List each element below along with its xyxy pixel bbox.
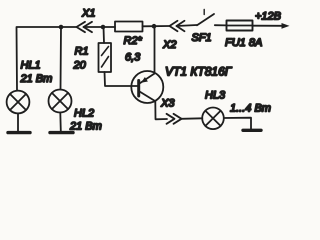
+12V supply arrow [282, 23, 290, 29]
connector X2 [170, 21, 185, 31]
svg-text:1...4 Вт: 1...4 Вт [230, 103, 271, 115]
wire top-left rail and HL1 drop [17, 27, 77, 91]
svg-text:HL1: HL1 [21, 60, 41, 72]
wire VT1 emitter drop [154, 26, 156, 73]
svg-text:+12В: +12В [255, 11, 281, 23]
svg-text:SF1: SF1 [192, 32, 212, 44]
junction node (HL2 tap) [59, 25, 64, 30]
svg-text:X1: X1 [81, 8, 95, 20]
wire FU1 to supply arrow [253, 25, 283, 27]
svg-text:R2*: R2* [124, 35, 143, 47]
lamp HL3 [202, 108, 224, 130]
lamp HL1 [7, 91, 30, 114]
transistor VT1 [131, 71, 163, 103]
wire HL3 to ground [224, 118, 251, 129]
connector X1 [77, 22, 93, 32]
junction node (VT1 emitter tap) [152, 24, 157, 29]
wire R2 to X2 [143, 25, 170, 27]
wire HL2 to ground [59, 113, 62, 132]
wire HL1 to ground [17, 113, 19, 131]
ground (chassis) HL3 [243, 129, 261, 132]
wire X2 to SF1 [177, 25, 198, 26]
svg-text:FU1 8А: FU1 8А [225, 37, 262, 49]
wire HL2 branch drop [60, 27, 63, 90]
svg-text:R1: R1 [75, 46, 89, 58]
lamp HL2 [49, 90, 72, 113]
junction node (R1 tap) [101, 25, 106, 30]
svg-text:21 Вт: 21 Вт [69, 121, 102, 133]
resistor R2 [115, 22, 143, 32]
ground (chassis) HL1 [8, 131, 30, 134]
svg-text:VT1 КТ816Г: VT1 КТ816Г [165, 65, 233, 79]
wire X3 to HL3 [182, 117, 203, 120]
svg-text:20: 20 [73, 60, 87, 72]
svg-text:HL2: HL2 [74, 108, 94, 120]
svg-text:6,3: 6,3 [125, 52, 141, 64]
svg-text:X2: X2 [162, 39, 176, 51]
svg-text:HL3: HL3 [205, 90, 226, 102]
svg-text:21 Вт: 21 Вт [20, 73, 53, 85]
switch SF1 [197, 10, 227, 26]
svg-text:X3: X3 [160, 98, 175, 110]
fuse FU1 [227, 21, 253, 31]
ground (chassis) HL2 [50, 131, 73, 134]
resistor R1 [99, 43, 112, 72]
wire X1 to R2 [84, 26, 116, 28]
wire R1 bottom lead to VT1 base [105, 72, 139, 86]
wire R1 top lead [103, 27, 106, 43]
wire VT1 collector to X3 [155, 101, 167, 120]
connector X3 [167, 114, 182, 124]
